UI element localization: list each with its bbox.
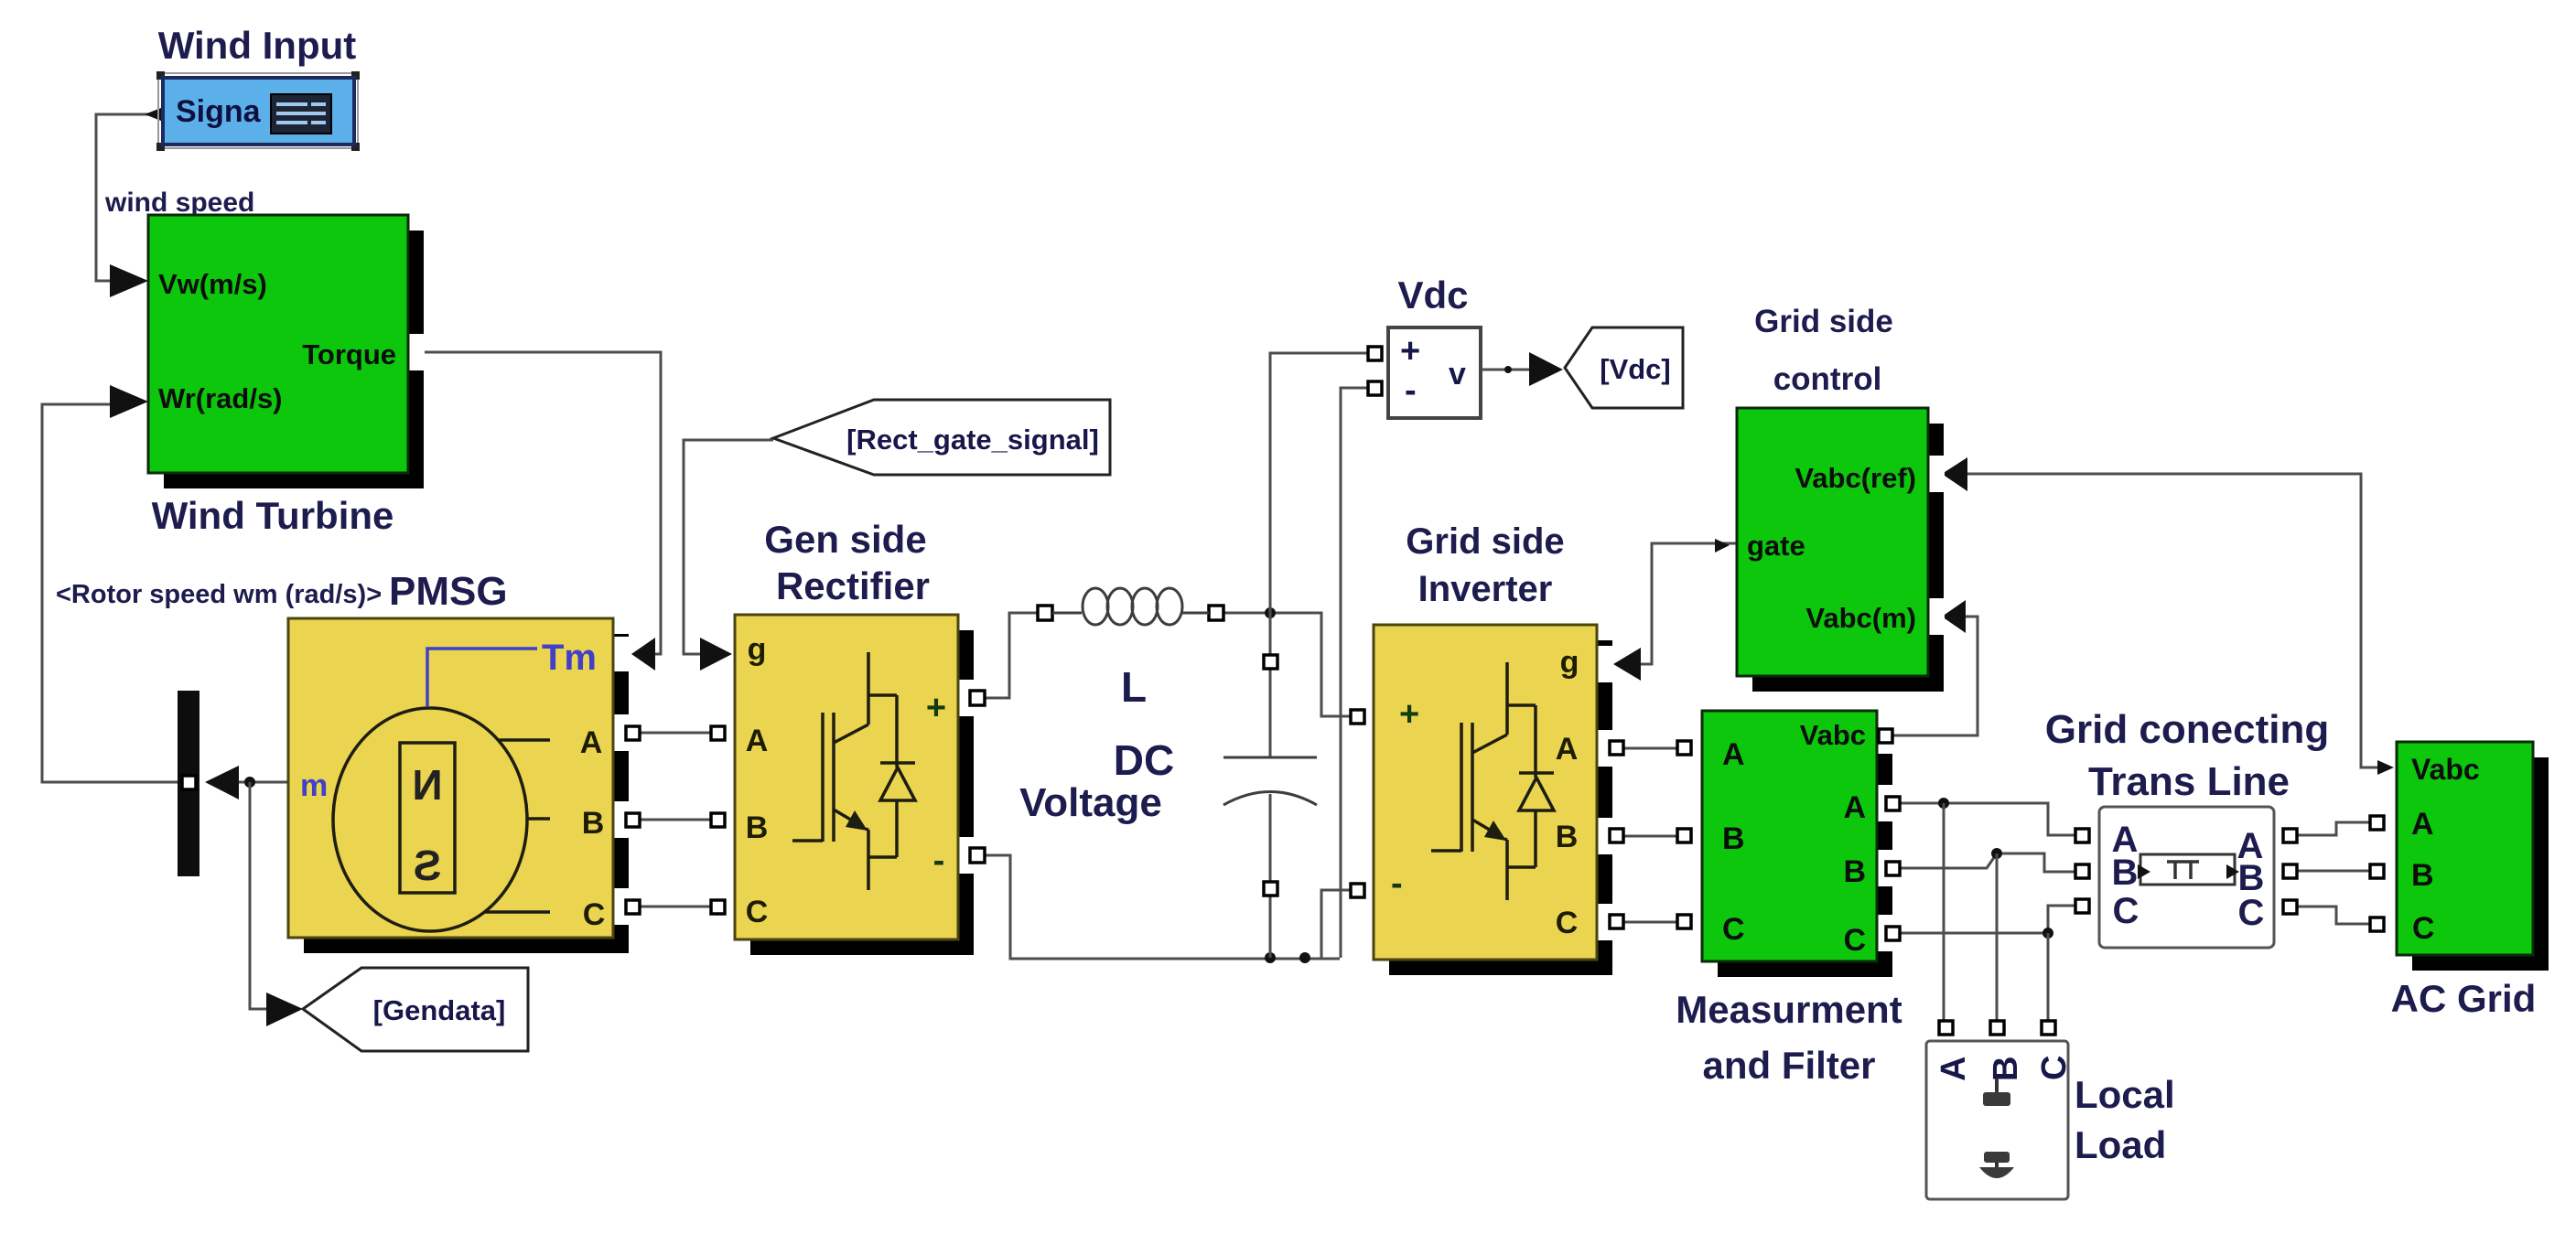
svg-text:B: B [746,810,769,845]
svg-text:C: C [1556,906,1579,940]
svg-text:S: S [414,842,442,889]
svg-text:B: B [1722,821,1745,856]
svg-text:A: A [1843,790,1866,825]
svg-text:Grid conecting: Grid conecting [2045,707,2329,752]
svg-text:+: + [926,689,946,727]
svg-text:C: C [1722,912,1745,947]
svg-text:C: C [2412,911,2435,946]
svg-text:PMSG: PMSG [389,569,508,614]
svg-text:[Gendata]: [Gendata] [373,994,506,1026]
svg-text:<Rotor speed wm (rad/s)>: <Rotor speed wm (rad/s)> [56,580,382,609]
svg-text:g: g [748,632,767,667]
svg-text:Vdc: Vdc [1397,274,1468,317]
svg-text:Vabc(m): Vabc(m) [1805,602,1916,634]
svg-text:-: - [1405,371,1417,410]
svg-text:Vw(m/s): Vw(m/s) [158,268,267,300]
svg-text:B: B [2411,858,2434,893]
svg-text:Measurment: Measurment [1676,988,1902,1031]
svg-text:control: control [1773,361,1882,397]
svg-text:DC: DC [1114,736,1174,784]
svg-text:Torque: Torque [302,338,396,370]
svg-text:AC Grid: AC Grid [2391,977,2537,1020]
svg-text:C: C [2035,1056,2074,1080]
svg-text:B: B [1843,854,1866,889]
svg-text:A: A [746,724,769,758]
svg-text:L: L [1121,663,1147,711]
svg-text:C: C [583,897,606,932]
svg-text:C: C [1843,923,1866,958]
svg-text:N: N [412,761,442,809]
svg-text:m: m [300,768,328,803]
svg-text:g: g [1560,645,1579,680]
svg-text:C: C [2238,893,2265,933]
svg-text:[Rect_gate_signal]: [Rect_gate_signal] [846,424,1099,456]
svg-text:[Vdc]: [Vdc] [1600,353,1671,385]
svg-text:Wind Input: Wind Input [158,24,357,67]
svg-text:A: A [580,725,603,760]
svg-text:Load: Load [2075,1123,2166,1166]
svg-text:Trans Line: Trans Line [2088,759,2290,804]
svg-text:Tm: Tm [542,638,597,678]
svg-text:wind speed: wind speed [104,188,254,218]
svg-text:Grid side: Grid side [1754,304,1893,339]
svg-text:+: + [1399,695,1419,734]
svg-text:and Filter: and Filter [1702,1044,1875,1087]
svg-text:Vabc(ref): Vabc(ref) [1795,462,1916,494]
svg-text:gate: gate [1747,530,1805,562]
svg-text:B: B [1556,820,1579,854]
svg-text:Rectifier: Rectifier [776,564,930,607]
svg-text:Inverter: Inverter [1418,569,1553,609]
svg-text:B: B [582,806,605,841]
svg-text:C: C [746,895,769,929]
svg-text:Vabc: Vabc [1800,719,1866,751]
svg-text:Gen side: Gen side [764,518,926,561]
svg-text:C: C [2113,891,2139,931]
svg-text:Wind Turbine: Wind Turbine [152,494,394,537]
svg-text:+: + [1400,332,1420,370]
svg-text:-: - [933,842,945,880]
svg-text:Grid side: Grid side [1406,521,1564,562]
svg-text:A: A [1935,1057,1973,1081]
svg-text:A: A [2411,807,2434,842]
svg-text:Signa: Signa [176,94,262,129]
svg-text:Voltage: Voltage [1019,780,1162,825]
svg-text:v: v [1449,357,1466,392]
svg-text:Local: Local [2075,1073,2175,1116]
svg-text:-: - [1391,864,1403,903]
svg-text:A: A [1722,737,1745,772]
svg-text:Wr(rad/s): Wr(rad/s) [158,382,283,414]
svg-text:B: B [1987,1057,2025,1081]
svg-text:Vabc: Vabc [2411,753,2480,786]
svg-text:A: A [1556,732,1579,767]
svg-text:B: B [2112,853,2139,893]
